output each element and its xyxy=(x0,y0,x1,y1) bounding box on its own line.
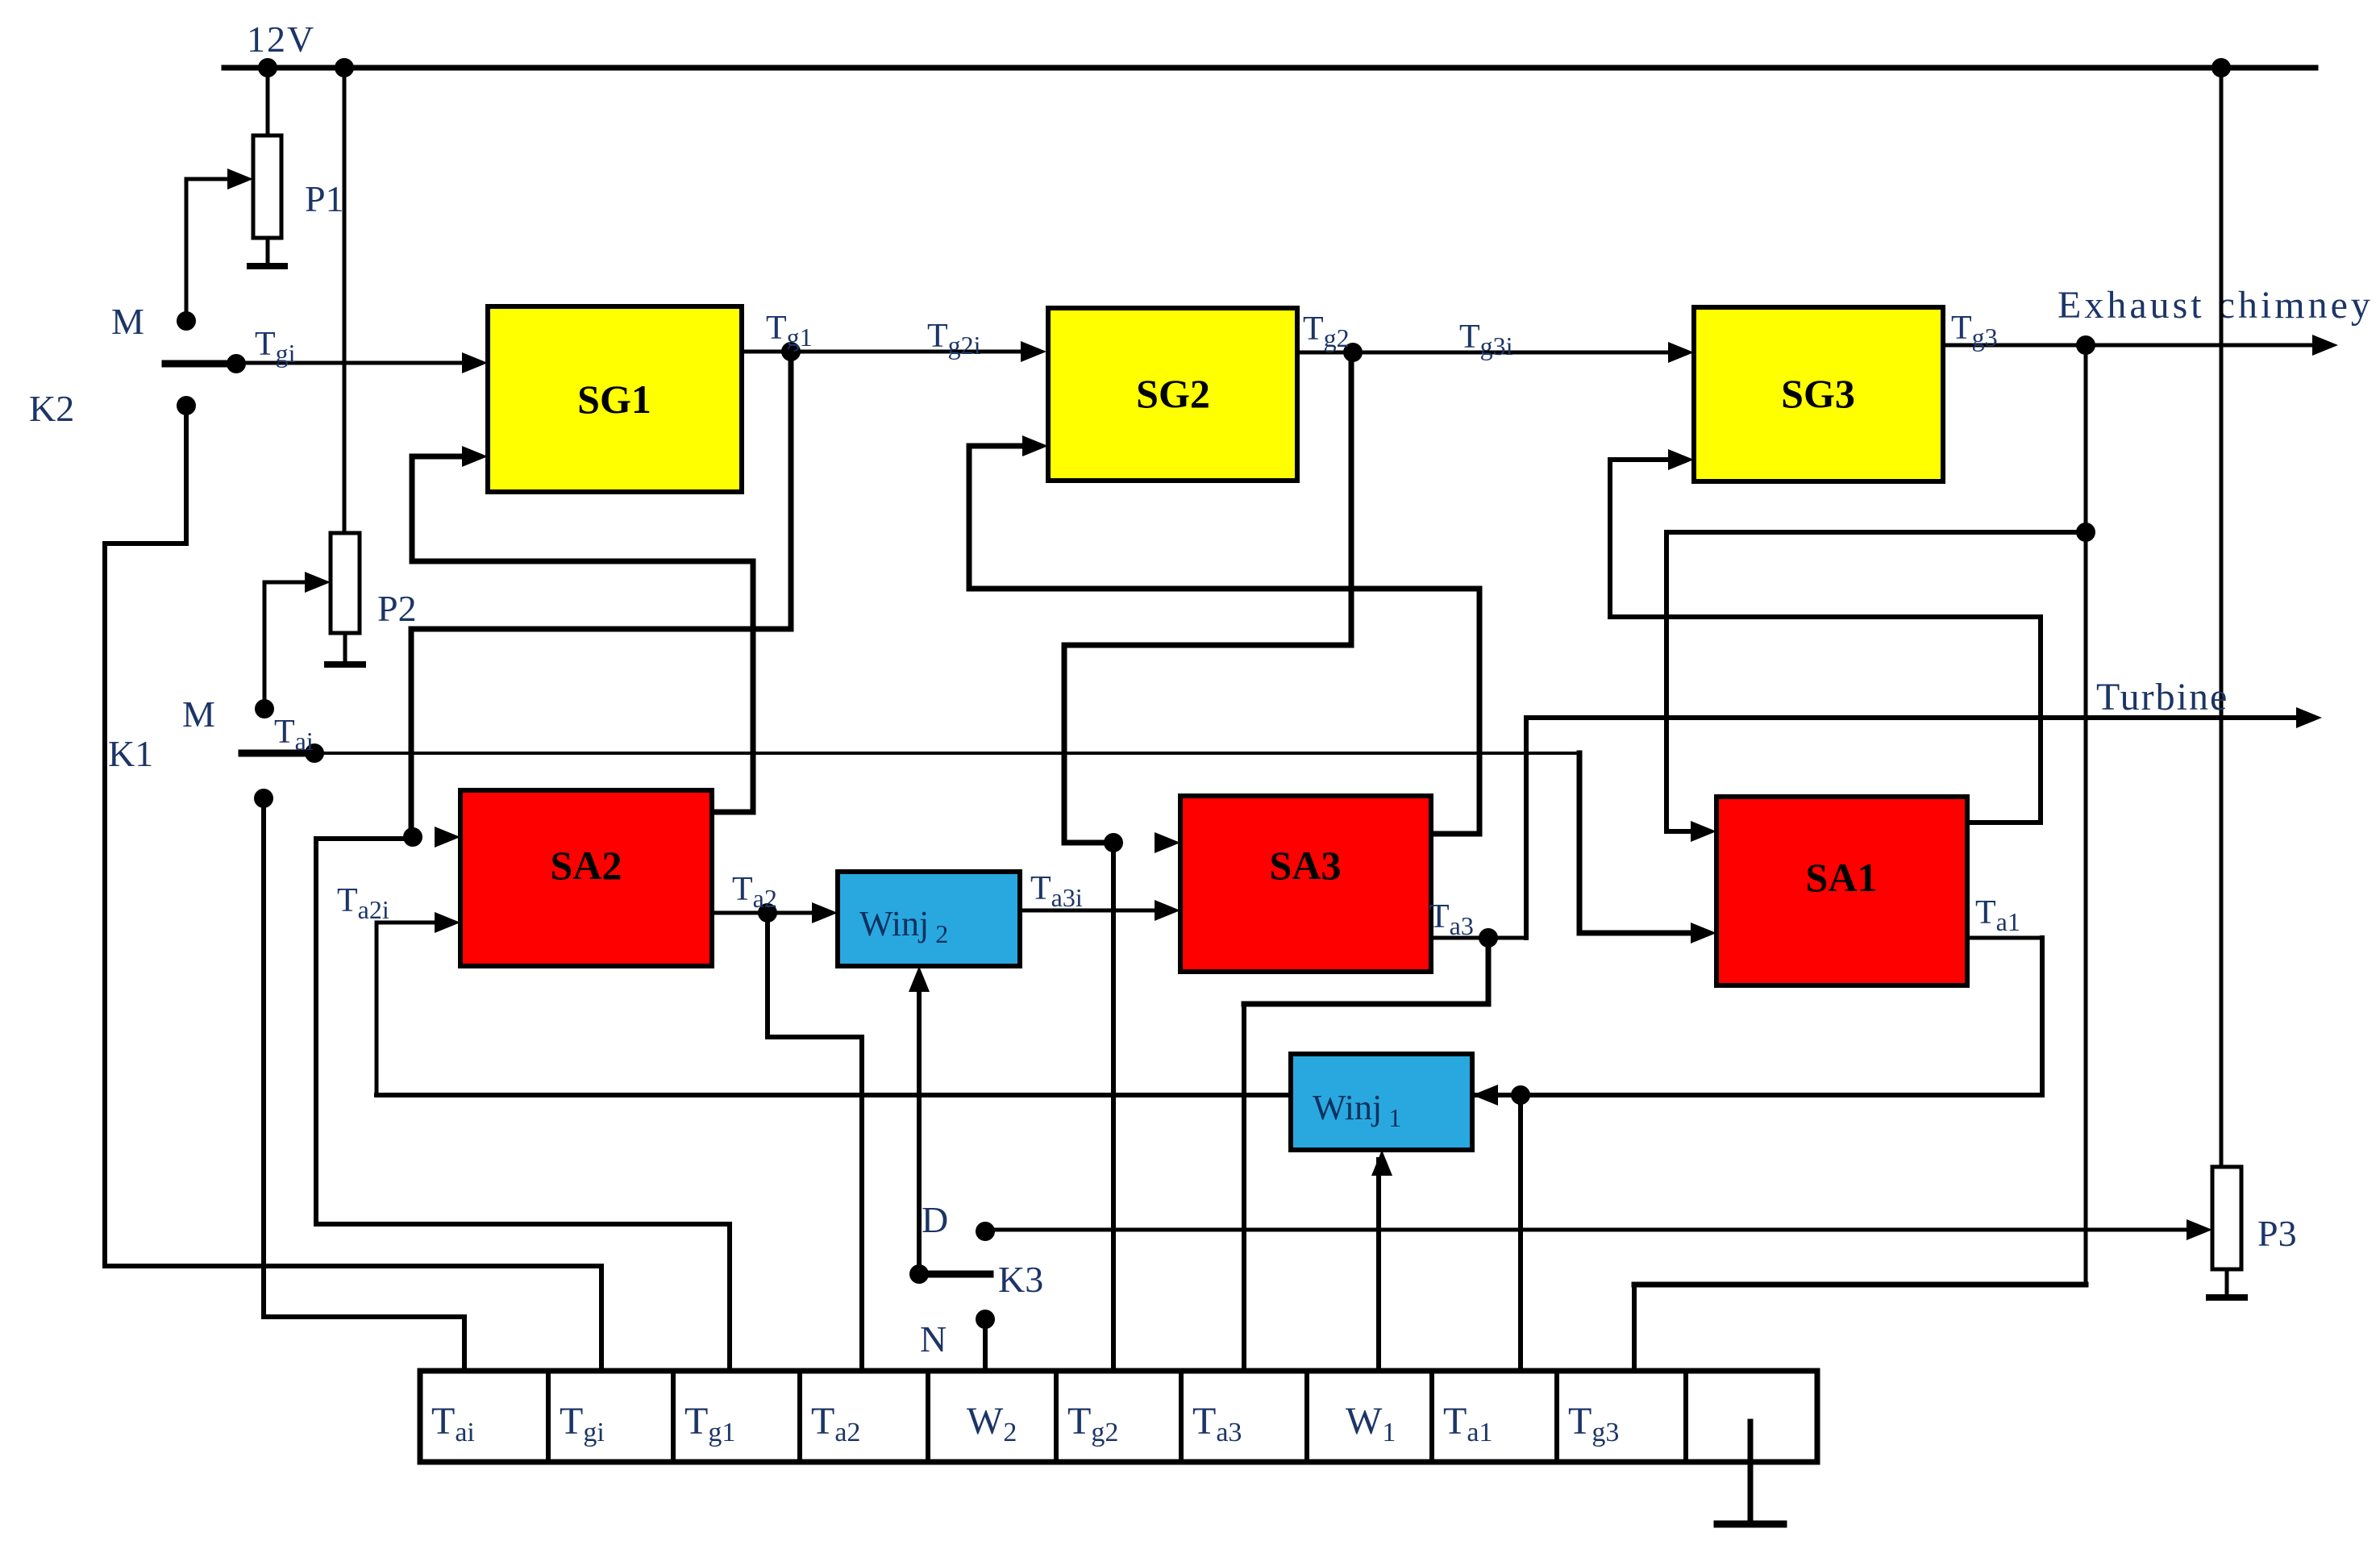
arrow exhaust chimney xyxy=(2312,335,2338,356)
block SG3 xyxy=(1694,307,1943,481)
wire K1 lower contact to Tai terminal xyxy=(261,796,266,1319)
svg-text:K1: K1 xyxy=(108,733,153,774)
node K2 common xyxy=(227,354,246,373)
block SA2 xyxy=(460,790,712,966)
contact N of K3 xyxy=(976,1310,995,1329)
wire Tg2 to SG3 xyxy=(1296,351,1675,355)
wire 12V to P3 xyxy=(2220,66,2224,1171)
node Ta3 xyxy=(1479,928,1498,948)
node Winj1 input junction xyxy=(1511,1085,1530,1105)
terminal divider left of Tg3 xyxy=(1554,1368,1559,1464)
potentiometer P3 xyxy=(2212,1167,2241,1269)
wire Ta1 tap to terminal Ta1 xyxy=(1518,1093,1523,1376)
contact lower K1 xyxy=(254,789,273,808)
arrow into Winj2 bottom xyxy=(909,966,930,992)
svg-text:Tai: Tai xyxy=(274,714,314,756)
wire SA1 right to SG3 in2 xyxy=(1608,457,1674,462)
node 12V dot P1 xyxy=(258,58,277,77)
contact M of K2 xyxy=(177,311,196,331)
svg-text:N: N xyxy=(920,1318,947,1360)
switch K2 blade xyxy=(162,360,240,368)
node 12V dot right riser xyxy=(2211,58,2231,77)
svg-text:K3: K3 xyxy=(998,1259,1043,1300)
node K3 common xyxy=(909,1264,929,1284)
arrow P3 wiper xyxy=(2187,1219,2212,1240)
svg-text:SA2: SA2 xyxy=(551,843,622,888)
block Winj1 xyxy=(1291,1054,1472,1150)
wire P1 bottom stem xyxy=(266,236,270,269)
arrow into SG3 in2 xyxy=(1668,449,1694,470)
arrow into SA3 in2 xyxy=(1155,900,1180,921)
svg-text:SA1: SA1 xyxy=(1806,855,1878,900)
wire Ta3 to Turbine xyxy=(1524,715,1529,940)
svg-text:Tg3: Tg3 xyxy=(1951,310,1998,352)
wire Tg2 tap to terminal Tg2 xyxy=(1111,840,1116,1376)
wire 12V rail xyxy=(222,65,2319,71)
node 12V dot P2 riser xyxy=(335,58,354,77)
svg-text:Tgi: Tgi xyxy=(255,326,296,368)
wire Ta1 from SA1 xyxy=(2040,935,2045,1097)
arrow into SG1 in1 xyxy=(462,352,488,373)
block SG1 xyxy=(488,306,742,492)
wire Tg1 to SG2 xyxy=(740,350,1028,354)
svg-text:SG1: SG1 xyxy=(577,377,651,422)
wire P2 wiper to M of K1 xyxy=(263,581,309,585)
wire P2 bottom stem xyxy=(343,631,347,665)
wire P1 wiper xyxy=(185,177,231,181)
wire Tg3 to exhaust chimney xyxy=(1941,344,2324,348)
wire Tai xyxy=(313,752,1581,755)
contact D of K3 xyxy=(976,1222,995,1241)
switch K3 blade xyxy=(916,1271,994,1278)
svg-text:SA3: SA3 xyxy=(1270,843,1342,888)
svg-text:SG2: SG2 xyxy=(1136,371,1210,416)
block SA3 xyxy=(1180,796,1431,972)
potentiometer P2 xyxy=(331,533,360,633)
wire P1 top stem xyxy=(266,66,270,140)
node Ta2 xyxy=(758,903,777,923)
arrow into SG2 in1 xyxy=(1021,341,1046,362)
wire Ta2 to Winj2 xyxy=(710,911,817,915)
arrow into SG2 in2 xyxy=(1022,435,1048,456)
svg-text:Tg3i: Tg3i xyxy=(1459,319,1513,360)
arrow into SA1 in1 xyxy=(1691,821,1716,842)
ground bar xyxy=(1714,1521,1787,1528)
svg-text:Ta3: Ta3 xyxy=(1429,898,1474,940)
wire Ta3 tap to terminal Ta3 xyxy=(1486,935,1492,1007)
wire Ta3 out xyxy=(1429,936,1529,940)
arrow into SA1 in2 xyxy=(1691,923,1716,943)
wire Tg1 tap to terminal Tg1 xyxy=(314,836,415,841)
wire Ta1 long line xyxy=(374,1093,2045,1097)
contact lower K2 xyxy=(177,396,196,415)
wire Tg3 vertical drop xyxy=(2084,344,2088,1287)
terminal strip outline xyxy=(420,1371,1817,1462)
terminal divider left of Tgi xyxy=(546,1368,551,1464)
svg-text:D: D xyxy=(922,1199,948,1240)
node Tg3 to SA1 in1 junction xyxy=(2076,523,2095,542)
svg-text:Tg1: Tg1 xyxy=(766,310,813,352)
wiper arrow P1 xyxy=(227,169,253,190)
svg-text:Ta2i: Ta2i xyxy=(337,882,389,924)
wire W1 terminal to Winj1 bottom xyxy=(1376,1157,1381,1376)
node Tg3 xyxy=(2076,335,2095,355)
arrow into SA2 in2 xyxy=(435,912,460,933)
node SA3 in1 junction xyxy=(1104,833,1123,852)
svg-text:Turbine: Turbine xyxy=(2096,676,2228,718)
wire 12V riser to P2 xyxy=(343,66,347,537)
wiper arrow P2 xyxy=(305,572,331,593)
svg-text:Exhaust chimney: Exhaust chimney xyxy=(2058,284,2374,327)
node K1 common / Tai xyxy=(305,743,324,763)
node SA2 in1 junction xyxy=(403,827,422,847)
svg-text:M: M xyxy=(182,693,215,735)
wire K3 common to Winj2 bottom xyxy=(917,973,922,1277)
terminal divider left of ground cell xyxy=(1683,1368,1688,1464)
svg-text:Tg2i: Tg2i xyxy=(927,318,981,360)
contact M of K1 xyxy=(255,699,274,718)
potentiometer P1 xyxy=(253,135,281,238)
terminal P2 bottom bar xyxy=(324,661,366,668)
wire P3 bottom stem xyxy=(2225,1268,2229,1298)
svg-text:Ta2: Ta2 xyxy=(732,871,777,913)
arrow into Winj1 bottom xyxy=(1371,1150,1392,1176)
terminal divider left of W1 xyxy=(1304,1368,1309,1464)
terminal P1 bottom bar xyxy=(247,263,288,269)
block Winj2 xyxy=(838,872,1020,966)
arrow into SA2 in1 xyxy=(435,827,460,848)
block SA1 xyxy=(1716,797,1967,985)
arrow into Winj1 right xyxy=(1472,1085,1498,1106)
wire Ta2 tap to terminal Ta2 xyxy=(765,910,770,1039)
svg-text:Ta1: Ta1 xyxy=(1975,894,2020,936)
node Tg2 xyxy=(1343,343,1363,362)
block SG2 xyxy=(1048,308,1297,481)
svg-text:M: M xyxy=(111,301,144,342)
terminal P3 bottom bar xyxy=(2206,1294,2248,1301)
wire Ta2i from Ta1 line xyxy=(375,921,442,925)
arrow into Winj2 xyxy=(812,902,838,923)
terminal divider left of Ta3 xyxy=(1179,1368,1184,1464)
arrow into SG3 in1 xyxy=(1668,342,1694,363)
switch K1 blade xyxy=(239,750,318,757)
wire SA3 right to SG2 in2 xyxy=(967,444,1029,449)
arrow Turbine xyxy=(2296,707,2322,728)
svg-text:Tg2: Tg2 xyxy=(1303,310,1350,352)
wire N to terminal W2 xyxy=(983,1317,988,1376)
arrow into SA3 in1 xyxy=(1155,832,1180,853)
terminal divider left of W2 xyxy=(926,1368,930,1464)
arrow into SG1 in2 xyxy=(462,446,488,467)
terminal divider left of Ta2 xyxy=(797,1368,802,1464)
wire SA2 right to SG1 in2 xyxy=(410,454,469,460)
wire K2 lower contact to Tgi terminal xyxy=(184,403,189,546)
svg-text:Ta3i: Ta3i xyxy=(1030,870,1083,912)
ground stem xyxy=(1748,1419,1754,1526)
wire Ta3i xyxy=(1018,909,1162,913)
wire Tgi xyxy=(235,361,468,365)
wire Tg1 feedback to SA2 in1 xyxy=(788,349,794,632)
svg-text:P1: P1 xyxy=(305,178,344,219)
terminal divider left of Tg2 xyxy=(1054,1368,1059,1464)
svg-text:K2: K2 xyxy=(29,388,74,429)
svg-text:12V: 12V xyxy=(247,19,315,60)
svg-text:SG3: SG3 xyxy=(1781,371,1855,416)
node Tg1 xyxy=(781,342,801,361)
svg-text:P3: P3 xyxy=(2257,1213,2297,1254)
wire D to P3 wiper xyxy=(984,1228,2189,1232)
wire Tg3 tap to terminal Tg3 xyxy=(1632,1282,2089,1288)
terminal divider left of Tg1 xyxy=(671,1368,676,1464)
svg-text:P2: P2 xyxy=(377,588,417,629)
terminal divider left of Ta1 xyxy=(1429,1368,1434,1464)
wire Tg2 feedback to SA3 in1 xyxy=(1349,350,1354,648)
wire Tg3 to SA1 in1 xyxy=(1664,530,2088,535)
